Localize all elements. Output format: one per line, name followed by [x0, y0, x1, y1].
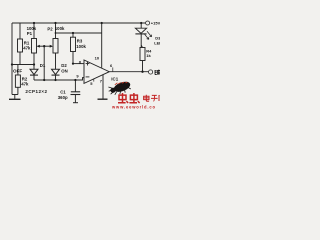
node dot P1-D1 [33, 63, 35, 65]
svg-text:9: 9 [76, 73, 79, 78]
watermark 子 [151, 95, 158, 101]
op-amp IC1 [84, 60, 109, 83]
svg-text:5: 5 [90, 81, 93, 86]
LED D3 [140, 23, 142, 28]
svg-text:C1: C1 [60, 89, 66, 94]
ground pin7 [98, 98, 108, 100]
op-amp plus sign [86, 62, 90, 66]
wiper arrowhead left [37, 45, 40, 48]
node dot wiper [43, 45, 45, 47]
svg-text:P1: P1 [27, 31, 33, 36]
resistor R1 [19, 23, 21, 39]
wire output [109, 71, 148, 73]
watermark beetle [108, 80, 131, 95]
ground bottom-left [9, 98, 21, 100]
node dot feed-P2 [55, 32, 57, 34]
node dot C1 tap [74, 79, 76, 81]
pin 7 wire [102, 74, 104, 98]
wiper arrowhead right [50, 45, 53, 48]
wire R3 top feed [56, 32, 102, 34]
op-amp minus sign [86, 76, 90, 78]
pin 6 stub [112, 67, 114, 71]
svg-text:ON: ON [61, 68, 67, 73]
svg-text:1k: 1k [146, 53, 151, 58]
wire non-inverting [73, 63, 84, 65]
wire left border [11, 23, 13, 95]
node dot border-OFF [11, 63, 13, 65]
diode D1 [33, 65, 35, 70]
watermark 虫 one [118, 93, 128, 103]
svg-text:D1: D1 [40, 63, 46, 68]
resistor R3 [72, 33, 74, 37]
svg-text:47k: 47k [21, 81, 29, 86]
wire top rail [12, 22, 145, 24]
diode D2 [52, 69, 60, 74]
terminal +15V [146, 21, 150, 25]
wire bottom-left jog [12, 95, 18, 99]
svg-text:www.eeworld.co: www.eeworld.co [111, 104, 156, 109]
node dot rail-LED [140, 22, 142, 24]
svg-text:P2: P2 [47, 26, 53, 31]
potentiometer P1 [33, 23, 35, 39]
node dot rail-P2 [54, 22, 56, 24]
svg-text:7: 7 [100, 79, 103, 84]
svg-text:LED: LED [154, 40, 160, 45]
svg-text:6: 6 [110, 63, 113, 68]
node dot R3 top [72, 32, 74, 34]
node dot R4-output [141, 71, 143, 73]
svg-text:D2: D2 [61, 63, 67, 68]
node dot R3 bottom [72, 63, 74, 65]
resistor R2 [17, 65, 19, 75]
resistor R4 [140, 48, 145, 61]
watermark partial char [159, 95, 160, 101]
watermark 虫 two [129, 93, 139, 103]
svg-text:100k: 100k [55, 26, 65, 31]
wire OFF node [12, 64, 34, 66]
LED arrow 1 [144, 34, 149, 40]
wire pin10 drop [101, 23, 103, 68]
terminal output [149, 70, 153, 74]
node dot rail-P1 [33, 22, 35, 24]
svg-text:IC1: IC1 [111, 76, 118, 81]
svg-text:360p: 360p [58, 95, 68, 100]
svg-text:+15V: +15V [151, 21, 160, 26]
svg-text:2CP12×2: 2CP12×2 [25, 89, 47, 94]
wire wiper link [38, 45, 53, 47]
wire inverting node [34, 78, 84, 80]
pin 5 stub [93, 79, 95, 82]
svg-text:10: 10 [95, 56, 100, 61]
node dot D2-invert [54, 79, 56, 81]
svg-text:47k: 47k [23, 46, 31, 51]
svg-text:OFF: OFF [13, 68, 22, 73]
node dot rail-pin10 [101, 22, 103, 24]
node dot wiper-invert [43, 79, 45, 81]
watermark 电 [144, 95, 150, 102]
capacitor C1 [74, 80, 76, 92]
label output 输出 glyph [155, 70, 160, 75]
svg-text:100k: 100k [76, 44, 86, 49]
potentiometer P2 [55, 23, 57, 39]
LED arrow 2 [147, 31, 152, 37]
wire wiper drop [43, 46, 45, 80]
